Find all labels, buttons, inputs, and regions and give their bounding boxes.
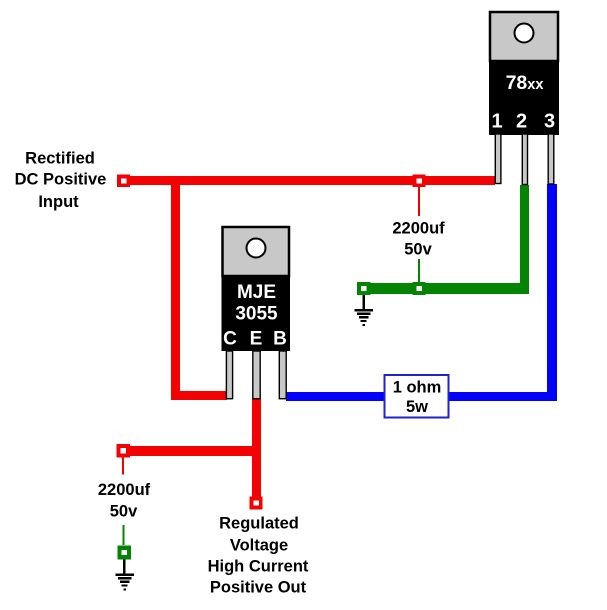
transistor Q1: body (222, 276, 291, 351)
wire: red horizontal into C leg (171, 391, 227, 400)
IC U1: mounting hole (515, 24, 534, 43)
svg-text:E: E (250, 329, 263, 350)
ground lead from green terminal (363, 295, 366, 310)
svg-text:50v: 50v (110, 503, 138, 521)
svg-text:Rectified: Rectified (25, 150, 95, 168)
svg-text:5w: 5w (406, 398, 428, 416)
wire: red horizontal to output filter capacitor (123, 446, 261, 456)
transistor Q1: leg B (279, 351, 286, 399)
transistor Q1: MJE3055 tab (223, 227, 290, 276)
wire: blue vertical from pin 3 down (547, 184, 557, 401)
wire: green vertical from pin 2 down (520, 185, 529, 294)
ground symbol (right) (355, 309, 374, 326)
svg-text:3055: 3055 (235, 304, 278, 325)
IC U1: 78xx body (489, 61, 559, 135)
transistor Q1: leg C (226, 351, 232, 399)
svg-text:B: B (273, 329, 287, 350)
wire: green horizontal ground bus (363, 283, 529, 294)
transistor Q1: mounting hole (247, 239, 266, 258)
node: output terminal square (250, 497, 263, 510)
svg-text:C: C (223, 329, 237, 350)
capacitor C1: negative lead (thin green) (418, 259, 420, 284)
wire: red rectified input horizontal (123, 176, 495, 185)
transistor Q1: leg E (253, 351, 260, 399)
svg-text:2: 2 (516, 111, 527, 133)
svg-text:50v: 50v (404, 241, 432, 259)
ground symbol (left) (116, 574, 135, 591)
svg-text:3: 3 (544, 111, 555, 133)
svg-text:2200uf: 2200uf (98, 481, 151, 499)
capacitor C2: negative lead (thin green) (123, 525, 125, 545)
IC U1: leg pin 1 (495, 134, 501, 184)
IC U1: leg pin 2 (522, 134, 527, 185)
label: Rectified DC Positive Input (15, 150, 107, 212)
node: green ground terminal square (left) (118, 546, 132, 560)
wire: red vertical from input junction down to MJE collector (171, 176, 180, 400)
ground lead (left) (123, 560, 126, 574)
svg-text:MJE: MJE (237, 282, 276, 303)
node: green junction on ground bus (413, 282, 426, 295)
svg-text:Input: Input (38, 193, 79, 211)
wire: blue horizontal from B leg to resistor (286, 392, 557, 401)
capacitor C2: positive lead (thin red) (122, 458, 124, 475)
resistor R1: 1 ohm 5w box (385, 375, 449, 418)
svg-text:Positive Out: Positive Out (210, 579, 307, 597)
wire: red vertical from E leg down to output terminal (252, 399, 261, 500)
svg-text:DC Positive: DC Positive (15, 171, 107, 189)
node: output cap terminal square (117, 444, 131, 458)
IC U1: leg pin 3 (548, 134, 554, 184)
node: junction on input rail (capacitor C1 tap) (413, 175, 426, 188)
label: Regulated Voltage High Current Positive Out (208, 515, 309, 597)
node: green ground terminal square (357, 282, 371, 295)
svg-text:Voltage: Voltage (230, 537, 288, 555)
capacitor C1: positive lead (thin red) (418, 187, 420, 216)
svg-text:1: 1 (491, 111, 502, 133)
svg-text:1 ohm: 1 ohm (393, 379, 442, 397)
svg-text:2200uf: 2200uf (392, 220, 445, 238)
IC U1: 78xx regulator tab (490, 12, 558, 61)
svg-text:High Current: High Current (208, 558, 309, 576)
svg-text:Regulated: Regulated (219, 515, 299, 533)
node: input terminal square (117, 175, 130, 188)
